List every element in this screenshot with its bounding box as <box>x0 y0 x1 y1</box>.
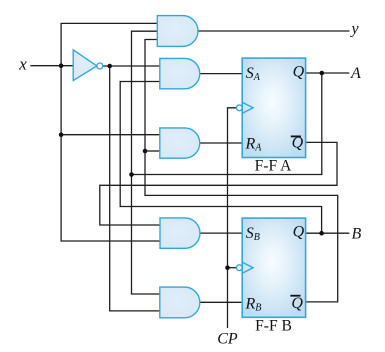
junction dot x/inverter <box>59 63 64 68</box>
wire B output <box>306 232 350 234</box>
wire x branch to R_A gate input 1 <box>61 134 160 136</box>
pin label Q-bar (F-F B) <box>290 295 303 312</box>
wire CP clock riser <box>228 108 237 328</box>
AND gate G2 (S_A) <box>160 58 200 88</box>
wire R_A gate output to R_A pin <box>200 142 242 144</box>
svg-text:CP: CP <box>217 331 238 348</box>
wire x input lead <box>30 65 73 67</box>
wire y output <box>198 30 350 32</box>
inverter U1 <box>73 50 103 81</box>
flip-flop F-F A clock triangle <box>243 103 253 113</box>
wire x riser to top AND gate input 1 <box>61 23 157 65</box>
wire net B feedback: Q of F-F B up to S_A gate input 2 <box>120 82 321 234</box>
wire R_B gate output to R_B pin <box>200 301 242 303</box>
flip-flop F-F A clock bubble <box>236 105 242 111</box>
AND gate G1 (output y) <box>157 16 198 47</box>
flip-flop F-F B clock bubble <box>236 265 242 271</box>
wire x' from inverter to S_A gate input 1 <box>103 65 160 67</box>
svg-text:B: B <box>352 226 362 243</box>
wire A output <box>306 72 350 74</box>
svg-text:y: y <box>350 21 360 38</box>
wire net B' branch to R_A gate input 2 <box>145 150 160 152</box>
wire net A feedback branch to Q output of F-F A <box>132 73 322 175</box>
wire net B' feedback: Q' of F-F B to top AND gate input 3 <box>145 40 338 302</box>
svg-text:A: A <box>350 65 361 82</box>
junction dot CP / F-F B clock <box>225 265 230 270</box>
junction dot A output <box>320 71 325 76</box>
wire S_B gate output to S_B pin <box>200 232 242 234</box>
wire net A' feedback: Q' of F-F A to S_B gate input 1 <box>100 142 337 225</box>
wire net A feedback: vertical from top AND gate input 2 down to R_B gate input 1 <box>132 31 160 294</box>
wire CP branch to F-F B clock <box>228 267 237 269</box>
AND gate G3 (R_A) <box>160 128 200 158</box>
junction dot B output <box>319 231 324 236</box>
svg-text:x: x <box>18 55 27 74</box>
svg-text:F-F B: F-F B <box>255 317 292 334</box>
wire x down-branch to S_B gate input 2 <box>61 66 160 241</box>
svg-text:F-F A: F-F A <box>255 157 293 174</box>
AND gate G5 (R_B) <box>160 287 200 318</box>
svg-text:Q: Q <box>291 295 303 312</box>
pin label Q-bar (F-F A) <box>291 134 304 151</box>
wire S_A gate output to S_A pin <box>200 73 242 75</box>
junction dot x' branch <box>107 64 112 69</box>
flip-flop U3 F-F B body <box>242 218 305 317</box>
junction dot A net <box>129 172 134 177</box>
junction dot B' net / R_A input <box>143 149 148 154</box>
junction dot x/R_A branch <box>59 132 64 137</box>
wire x' down-branch to R_B gate input 2 <box>110 66 160 311</box>
svg-text:Q: Q <box>293 224 305 241</box>
flip-flop U2 F-F A body <box>242 58 305 157</box>
AND gate G4 (S_B) <box>160 218 200 248</box>
flip-flop F-F B clock triangle <box>243 263 253 273</box>
svg-text:Q: Q <box>293 64 305 81</box>
